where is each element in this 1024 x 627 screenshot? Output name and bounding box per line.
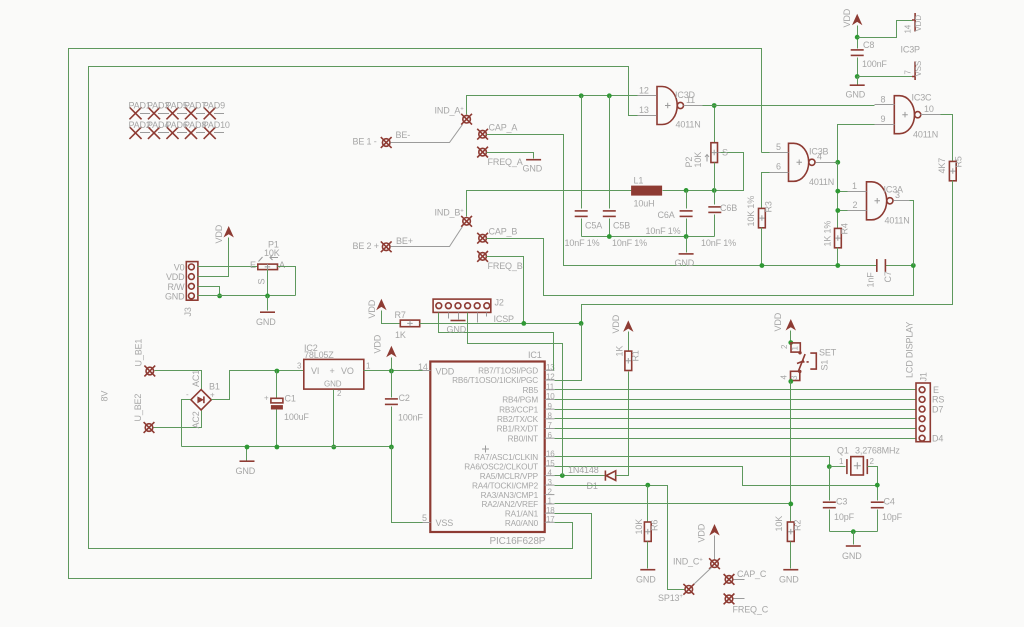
svg-text:S: S xyxy=(257,279,267,285)
junction RA2 node xyxy=(788,502,793,507)
junction C5A top xyxy=(579,93,584,98)
svg-text:E: E xyxy=(933,385,939,395)
svg-text:RA0/AN0: RA0/AN0 xyxy=(505,519,539,528)
pad SP13 xyxy=(658,584,694,603)
pad FREQ_C xyxy=(724,594,769,615)
svg-text:RB6/T1OSO/1ICKI/PGC: RB6/T1OSO/1ICKI/PGC xyxy=(452,376,538,385)
svg-text:C6A: C6A xyxy=(658,210,675,220)
svg-text:15: 15 xyxy=(546,459,555,468)
svg-text:BE+: BE+ xyxy=(396,236,413,246)
svg-text:D4: D4 xyxy=(932,434,943,444)
svg-text:RB4/PGM: RB4/PGM xyxy=(502,396,538,405)
wire CAP_A rail to C7 xyxy=(487,135,877,266)
junction FREQ_B node xyxy=(521,321,526,326)
wire IND_C to SP13 xyxy=(693,568,712,586)
junction C4 RA6 xyxy=(875,483,880,488)
pin J2 pin6 stub xyxy=(486,313,488,317)
svg-text:J3: J3 xyxy=(183,307,193,316)
svg-text:CAP_A: CAP_A xyxy=(489,123,518,133)
wire RA7 to crystal xyxy=(555,457,830,467)
wire U_BE2 to B1 AC2 xyxy=(154,411,202,428)
power pins IC3P xyxy=(901,13,924,80)
pin J2 pin2 stub xyxy=(448,313,450,319)
svg-text:10nF 1%: 10nF 1% xyxy=(701,238,736,248)
svg-text:4K7: 4K7 xyxy=(937,158,947,174)
wire IC3B pin5 stub xyxy=(762,152,770,154)
wire rail C7 to IC3A out xyxy=(886,265,914,267)
svg-text:GND: GND xyxy=(675,258,695,268)
svg-text:VDD: VDD xyxy=(166,272,185,282)
ground FREQ_A xyxy=(523,160,543,174)
junction C6A bottom xyxy=(684,234,689,239)
wire R7 to PGC line xyxy=(420,323,582,325)
svg-text:IC3P: IC3P xyxy=(901,45,921,55)
junction R4 bottom xyxy=(835,263,840,268)
svg-text:4: 4 xyxy=(780,375,789,380)
junction IC3D out xyxy=(712,103,717,108)
svg-text:U_BE1: U_BE1 xyxy=(134,339,144,367)
svg-text:IC3C: IC3C xyxy=(912,93,933,103)
svg-text:14: 14 xyxy=(904,24,913,33)
resistor R5 xyxy=(937,156,964,181)
svg-text:1K: 1K xyxy=(395,330,406,340)
wire R5 bottom to ICSP node xyxy=(582,181,953,324)
wire caps bottom rail xyxy=(582,236,715,238)
svg-text:7: 7 xyxy=(904,70,913,75)
junction S1 bottom xyxy=(788,379,793,384)
wire IC2 GND to rail xyxy=(333,390,335,447)
wire VDD to IC3P pin14 xyxy=(858,21,913,38)
wire IC3A pin1 stub xyxy=(838,191,848,193)
svg-text:L1: L1 xyxy=(634,176,644,186)
pad PAD5 xyxy=(166,101,188,119)
svg-text:9: 9 xyxy=(548,402,553,411)
capacitor C6A xyxy=(646,191,693,237)
ground under C8 xyxy=(846,77,866,100)
svg-text:SET: SET xyxy=(819,348,837,358)
bridge rectifier B1 xyxy=(186,370,220,429)
svg-text:RB0/INT: RB0/INT xyxy=(508,434,538,443)
svg-text:6: 6 xyxy=(548,431,553,440)
svg-text:8: 8 xyxy=(881,95,886,105)
svg-text:RA5/MCLR/VPP: RA5/MCLR/VPP xyxy=(480,472,539,481)
wire power ground rail xyxy=(182,446,392,448)
microcontroller IC1 PIC16F628P xyxy=(418,350,555,547)
svg-text:1N4148: 1N4148 xyxy=(568,465,599,475)
svg-text:VDD: VDD xyxy=(373,334,383,353)
wire RA6 to crystal pin2 xyxy=(555,467,878,486)
svg-text:2: 2 xyxy=(337,389,342,398)
svg-text:5: 5 xyxy=(776,142,781,152)
junction P1 S xyxy=(265,294,270,299)
svg-text:VDD: VDD xyxy=(436,367,455,377)
pad PAD6 xyxy=(166,120,188,138)
potentiometer P2 xyxy=(684,106,728,191)
wire IC3D out to IC3C pin8 xyxy=(703,105,875,107)
junction MCLR ICSP xyxy=(560,473,565,478)
svg-text:100uF: 100uF xyxy=(284,412,309,422)
svg-text:10uH: 10uH xyxy=(634,199,655,209)
svg-text:11: 11 xyxy=(546,382,555,391)
wire J3 VDD to supply xyxy=(198,238,229,277)
svg-text:10K: 10K xyxy=(264,248,280,258)
wire C3 C4 ground rail xyxy=(830,531,878,533)
svg-text:1: 1 xyxy=(791,346,800,351)
svg-text:GND: GND xyxy=(779,575,799,585)
svg-text:C5B: C5B xyxy=(613,221,630,231)
svg-text:RB1/RX/DT: RB1/RX/DT xyxy=(497,425,539,434)
svg-text:VDD: VDD xyxy=(214,224,224,243)
svg-text:4: 4 xyxy=(548,468,553,477)
capacitor C4 xyxy=(871,497,903,532)
svg-text:LCD DISPLAY: LCD DISPLAY xyxy=(905,322,915,378)
svg-text:R4: R4 xyxy=(840,223,850,234)
svg-text:78L05Z: 78L05Z xyxy=(304,350,334,360)
svg-text:V0: V0 xyxy=(174,262,185,272)
pad U_BE1 xyxy=(134,339,156,377)
wire B1 plus to IC2 VI xyxy=(212,371,304,400)
svg-text:GND: GND xyxy=(523,164,543,174)
svg-text:10K: 10K xyxy=(774,516,784,532)
svg-text:RA6/OSC2/CLKOUT: RA6/OSC2/CLKOUT xyxy=(464,462,538,471)
svg-text:1: 1 xyxy=(852,181,857,191)
junction R3 bottom xyxy=(760,263,765,268)
supply VDD IND_C xyxy=(697,523,720,559)
svg-text:10K 1%: 10K 1% xyxy=(746,196,756,227)
svg-text:A: A xyxy=(279,260,285,270)
pad PAD9 xyxy=(203,101,225,119)
resistor R1 xyxy=(615,346,641,371)
svg-text:C1: C1 xyxy=(285,394,296,404)
pad PAD4 xyxy=(147,120,169,138)
svg-text:IND_A+: IND_A+ xyxy=(435,106,465,116)
svg-text:4011N: 4011N xyxy=(676,120,701,130)
pad PAD2 xyxy=(129,120,151,138)
resistor R4 xyxy=(823,221,850,266)
wire RB2 to LCD xyxy=(555,418,917,420)
wire RA5 MCLR net xyxy=(555,475,605,477)
svg-text:+: + xyxy=(330,366,335,376)
svg-text:RS: RS xyxy=(932,395,944,405)
ground J2 xyxy=(447,313,467,335)
wire crystal pin2 to C4 xyxy=(868,467,878,501)
pin J2 pin5 stub xyxy=(477,313,479,323)
svg-text:RB2/TX/CK: RB2/TX/CK xyxy=(497,415,539,424)
wire drop to RB6 PGC xyxy=(555,324,582,381)
svg-text:E: E xyxy=(250,260,256,270)
wire RB3 to LCD xyxy=(555,409,917,411)
ground under P1 xyxy=(256,296,276,328)
wire FREQ_B down to ICSP line xyxy=(487,257,524,324)
svg-text:R2: R2 xyxy=(793,520,803,531)
svg-text:1nF: 1nF xyxy=(866,272,876,288)
svg-text:RA7/ASC1/CLKIN: RA7/ASC1/CLKIN xyxy=(474,453,538,462)
wire IC3B pin6 to R3 to rail xyxy=(762,173,770,209)
junction C8 bottom xyxy=(855,74,860,79)
svg-text:AC1: AC1 xyxy=(191,370,201,387)
wire U_BE1 to B1 AC1 xyxy=(155,371,202,390)
svg-text:2: 2 xyxy=(870,457,875,466)
svg-text:12: 12 xyxy=(639,86,649,96)
svg-text:10nF 1%: 10nF 1% xyxy=(612,238,647,248)
svg-text:11: 11 xyxy=(686,95,695,105)
svg-text:VDD: VDD xyxy=(697,523,707,542)
svg-text:4011N: 4011N xyxy=(885,216,910,226)
svg-text:1: 1 xyxy=(548,497,553,506)
junction C5B top xyxy=(607,93,612,98)
wire FREQ_A to GND xyxy=(487,153,534,159)
junction crystal gnd xyxy=(851,529,856,534)
svg-text:ICSP: ICSP xyxy=(494,314,515,324)
junction P2 bottom xyxy=(712,188,717,193)
wire IC3A pin2 stub xyxy=(838,210,848,212)
svg-text:PAD10: PAD10 xyxy=(203,120,230,130)
wire RB5 to LCD xyxy=(555,389,917,391)
svg-text:RA1/AN1: RA1/AN1 xyxy=(505,509,539,518)
wire IND_B to L1 xyxy=(467,191,632,217)
resistor R7 xyxy=(395,310,420,340)
supply VDD R1 xyxy=(611,314,634,351)
svg-text:PIC16F628P: PIC16F628P xyxy=(490,536,546,547)
voltage regulator IC2 xyxy=(297,343,371,398)
svg-text:4011N: 4011N xyxy=(809,177,834,187)
svg-text:100nF: 100nF xyxy=(398,413,423,423)
svg-text:VDD: VDD xyxy=(611,314,621,333)
wire J3 RW to ground rail xyxy=(198,287,220,296)
svg-text:GND: GND xyxy=(842,551,862,561)
nand gate IC3B xyxy=(770,142,835,187)
svg-text:Q1: Q1 xyxy=(837,446,849,456)
svg-text:VDD: VDD xyxy=(914,15,923,32)
svg-text:100nF: 100nF xyxy=(862,59,887,69)
capacitor C3 xyxy=(823,467,855,532)
switch S1 SET xyxy=(780,343,837,381)
svg-text:GND: GND xyxy=(324,380,342,389)
junction crystal pin1 node xyxy=(827,464,832,469)
junction C1 top xyxy=(275,369,280,374)
connector J3 xyxy=(165,262,198,317)
svg-text:12: 12 xyxy=(546,373,555,382)
svg-text:CAP_C: CAP_C xyxy=(737,569,767,579)
svg-text:C6B: C6B xyxy=(720,203,737,213)
svg-text:2: 2 xyxy=(853,200,858,210)
wire RB1 to LCD xyxy=(555,428,917,430)
wire IC3A out down to rail xyxy=(910,201,914,266)
svg-text:U_BE2: U_BE2 xyxy=(133,394,143,422)
svg-text:10pF: 10pF xyxy=(882,512,903,522)
svg-text:IC3A: IC3A xyxy=(884,185,904,195)
svg-text:3,2768MHz: 3,2768MHz xyxy=(855,446,900,456)
pad FREQ_A xyxy=(477,147,523,167)
pad CAP_C xyxy=(724,569,767,585)
wire IND_A to IC3D pin12 net xyxy=(467,96,639,115)
pad PAD10 xyxy=(203,120,230,138)
svg-text:C7: C7 xyxy=(883,271,893,282)
svg-text:GND: GND xyxy=(636,575,656,585)
svg-text:R3: R3 xyxy=(764,201,774,212)
svg-text:RB7/T1OSI/PGD: RB7/T1OSI/PGD xyxy=(478,367,538,376)
crystal Q1 xyxy=(830,446,901,476)
svg-text:10nF 1%: 10nF 1% xyxy=(646,226,681,236)
svg-text:1K: 1K xyxy=(615,346,625,357)
pad PAD8 xyxy=(184,120,206,138)
wire BE2 to IND_B xyxy=(391,227,463,247)
wire IC3B out to IC3A inputs and R4 xyxy=(835,162,838,164)
svg-text:GND: GND xyxy=(447,325,467,335)
svg-text:VDD: VDD xyxy=(773,312,783,331)
wire IC3C out to R5 xyxy=(941,115,953,162)
svg-text:R6: R6 xyxy=(650,520,660,531)
capacitor C6B xyxy=(701,191,737,249)
svg-text:3: 3 xyxy=(548,478,553,487)
svg-text:BE 1 -: BE 1 - xyxy=(353,137,377,147)
pad PAD7 xyxy=(184,101,206,119)
svg-text:R1: R1 xyxy=(631,350,641,361)
ground under C6A xyxy=(675,237,695,269)
junction IC3A pin1 xyxy=(835,189,840,194)
svg-text:+: + xyxy=(264,394,269,403)
connector J1 LCD xyxy=(905,322,945,444)
resistor R3 xyxy=(746,196,774,266)
capacitor C8 xyxy=(851,40,888,77)
junction rail GND xyxy=(245,445,250,450)
nand gate IC3C xyxy=(875,93,941,140)
svg-text:J1: J1 xyxy=(919,372,929,381)
svg-text:4: 4 xyxy=(817,152,822,162)
junction VDD node xyxy=(389,369,394,374)
nand gate IC3D xyxy=(638,86,703,130)
svg-text:10K: 10K xyxy=(693,152,703,168)
pad CAP_A xyxy=(477,123,517,140)
svg-text:RA3/AN3/CMP1: RA3/AN3/CMP1 xyxy=(481,491,539,500)
svg-text:GND: GND xyxy=(846,90,866,100)
capacitor C2 xyxy=(385,371,424,447)
svg-text:R/W: R/W xyxy=(167,282,185,292)
pad IND_B xyxy=(435,208,473,227)
pad PAD3 xyxy=(147,101,169,119)
svg-text:1: 1 xyxy=(839,457,844,466)
diode D1 1N4148 xyxy=(568,465,616,491)
svg-text:RB3/CCP1: RB3/CCP1 xyxy=(499,405,538,414)
ground R2 xyxy=(779,570,799,585)
pad IND_C xyxy=(673,557,720,570)
junction R5 node xyxy=(579,321,584,326)
svg-text:13: 13 xyxy=(639,105,649,115)
svg-text:4011N: 4011N xyxy=(913,130,938,140)
svg-text:3: 3 xyxy=(895,190,900,200)
wire IC3B out junction xyxy=(835,160,840,165)
svg-text:VO: VO xyxy=(341,366,354,376)
wire VDD to R7 xyxy=(382,311,401,324)
wire net RA0 inner loop xyxy=(89,67,639,549)
wire J3 V0 to P1 E xyxy=(198,266,258,268)
svg-text:VSS: VSS xyxy=(914,61,923,77)
svg-text:VSS: VSS xyxy=(436,518,454,528)
svg-text:1: 1 xyxy=(366,362,371,371)
ground R6 xyxy=(636,570,656,585)
junction C5B bottom xyxy=(607,234,612,239)
svg-text:PAD9: PAD9 xyxy=(203,101,225,111)
ground crystal xyxy=(842,532,862,562)
svg-text:10: 10 xyxy=(924,104,934,114)
svg-text:BE 2 +: BE 2 + xyxy=(353,241,379,251)
ground rail symbol xyxy=(236,447,256,477)
svg-text:VDD: VDD xyxy=(367,299,377,318)
svg-text:FREQ_A: FREQ_A xyxy=(488,157,523,167)
wire VSS to IC1 xyxy=(392,447,423,523)
svg-text:FREQ_C: FREQ_C xyxy=(733,605,769,615)
junction VDD C8 xyxy=(855,35,860,40)
junction IC2 GND xyxy=(331,445,336,450)
svg-text:10: 10 xyxy=(546,392,555,401)
resistor R2 xyxy=(774,516,803,569)
capacitor C7 xyxy=(866,259,894,287)
junction RW xyxy=(217,294,222,299)
svg-text:8V: 8V xyxy=(100,391,110,402)
supply VDD J3 xyxy=(214,224,234,243)
pad FREQ_B xyxy=(477,251,523,271)
svg-text:FREQ_B: FREQ_B xyxy=(488,261,523,271)
wire S1 to R2 xyxy=(790,382,792,523)
pad PAD1 xyxy=(129,101,151,119)
wire CAP_B to IC3A out node xyxy=(487,239,914,296)
wire B1 minus to rail xyxy=(182,400,191,447)
svg-text:R5: R5 xyxy=(954,156,964,167)
svg-text:IND_B+: IND_B+ xyxy=(435,208,465,218)
svg-text:16: 16 xyxy=(546,449,555,458)
wire D1 to R1 xyxy=(616,372,629,476)
pad IND_A xyxy=(435,106,473,125)
svg-text:RA4/TOCKI/CMP2: RA4/TOCKI/CMP2 xyxy=(472,481,539,490)
wire J2 pin4 to MCLR xyxy=(468,313,563,476)
svg-text:D7: D7 xyxy=(932,404,943,414)
svg-text:C4: C4 xyxy=(884,497,895,507)
supply VDD S1 xyxy=(773,312,796,342)
junction rail C2 VSS xyxy=(389,445,394,450)
svg-text:2: 2 xyxy=(548,487,553,496)
svg-text:C2: C2 xyxy=(399,393,410,403)
supply VDD C8 xyxy=(842,8,862,48)
pad BE2 xyxy=(353,241,392,252)
svg-text:2: 2 xyxy=(780,344,789,349)
wire C8 to IC3P pin7 xyxy=(858,76,913,78)
svg-text:RA2/AN2/VREF: RA2/AN2/VREF xyxy=(482,500,539,509)
svg-text:C8: C8 xyxy=(863,40,874,50)
wire IC2 VO to IC1 VDD xyxy=(364,370,423,372)
wire J3 GND rail xyxy=(198,295,296,297)
svg-text:GND: GND xyxy=(236,466,256,476)
wire IC3B out node to IC3C pin9 xyxy=(838,125,875,163)
potentiometer P1 xyxy=(250,240,285,296)
wire RA4 to R6 and SP13 xyxy=(555,486,685,590)
svg-text:9: 9 xyxy=(881,114,886,124)
svg-text:10nF 1%: 10nF 1% xyxy=(565,238,600,248)
junction rail C1 xyxy=(275,445,280,450)
svg-text:10K: 10K xyxy=(634,519,644,535)
svg-text:S: S xyxy=(722,148,728,158)
svg-text:3: 3 xyxy=(297,362,302,371)
svg-text:BE-: BE- xyxy=(396,130,411,140)
svg-text:GND: GND xyxy=(165,292,185,302)
junction RA4 R6 xyxy=(645,483,650,488)
junction C6A top xyxy=(684,188,689,193)
svg-text:AC2: AC2 xyxy=(191,411,201,428)
svg-text:18: 18 xyxy=(546,506,555,515)
svg-text:IND_C+: IND_C+ xyxy=(673,557,703,567)
wire J2 pin1 to RB7 PGD xyxy=(439,313,554,371)
svg-text:5: 5 xyxy=(422,513,427,523)
connector J2 ICSP xyxy=(433,298,514,325)
